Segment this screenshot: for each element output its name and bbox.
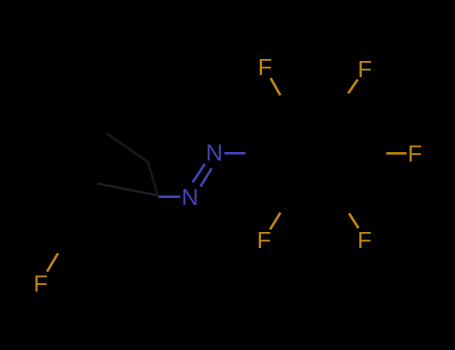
svg-text:F: F: [357, 227, 371, 253]
svg-text:F: F: [358, 56, 372, 82]
bond C-F fluorine half top-right (orange): [348, 80, 358, 94]
svg-text:N: N: [182, 184, 199, 210]
svg-text:N: N: [206, 140, 223, 166]
bond N-C1' nitrogen half (blue): [225, 152, 246, 155]
bond C-F fluorine half right (orange): [386, 152, 406, 155]
wire faint streak upper segment (left ring C2-C1 area): [106, 133, 158, 194]
svg-text:F: F: [258, 54, 272, 80]
bond N=N line 2: [201, 168, 212, 186]
wire faint shallow segment into C1 (left ring): [97, 184, 159, 196]
bond C5-F fluorine half (left ring, orange): [47, 253, 58, 271]
bond N=N line 1: [193, 164, 205, 183]
bond C1-N nitrogen half (blue): [159, 195, 181, 198]
svg-text:F: F: [257, 227, 271, 253]
bond C-F fluorine half top-left (orange): [271, 78, 281, 95]
bond C-F fluorine half bottom-left (orange): [270, 213, 280, 230]
svg-text:F: F: [34, 270, 48, 296]
bond C-F fluorine half bottom-right (orange): [349, 213, 359, 228]
svg-text:F: F: [408, 141, 422, 167]
